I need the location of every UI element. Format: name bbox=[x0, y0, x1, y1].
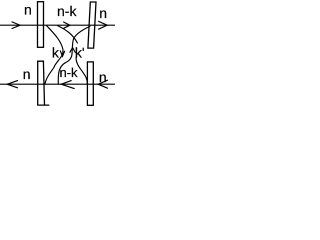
svg-text:n: n bbox=[24, 2, 32, 18]
phonon curve D, S-curve from top-right barrier down-left to bottom line bbox=[58, 26, 90, 84]
arrow bottom-right left-pointing bbox=[98, 80, 107, 88]
arrow top-right right-pointing bbox=[99, 21, 108, 29]
svg-text:n: n bbox=[99, 5, 107, 21]
svg-text:n-k: n-k bbox=[60, 65, 79, 80]
arrowhead up on phonon D bbox=[70, 48, 75, 53]
arrow top-middle right-pointing bbox=[64, 22, 70, 28]
svg-text:k: k bbox=[52, 44, 60, 60]
wire top electron line bbox=[0, 24, 115, 26]
phonon curve B upper part (from top line, crossing D) bbox=[58, 26, 78, 43]
arrowhead down on phonon A bbox=[60, 51, 64, 57]
barrier rectangle top-left bbox=[38, 2, 44, 48]
phonon curve A (k), bulging right from top line to bottom line bbox=[45, 26, 63, 85]
svg-text:n: n bbox=[23, 66, 31, 82]
phonon curve B lower part (emerging below k' label, to bottom-right barrier) bbox=[76, 58, 87, 85]
arrow bottom-left left-pointing bbox=[7, 81, 17, 88]
svg-text:k': k' bbox=[75, 45, 85, 61]
barrier rectangle top-right (slightly tilted parallelogram) bbox=[88, 2, 96, 48]
barrier rectangle bottom-right bbox=[87, 62, 93, 105]
arrow top-left right-pointing bbox=[12, 22, 20, 29]
svg-text:n: n bbox=[99, 69, 107, 85]
arrow bottom-middle left-pointing bbox=[61, 81, 74, 89]
svg-text:n-k: n-k bbox=[57, 3, 77, 19]
barrier rectangle bottom-left (with overshoot foot) bbox=[38, 61, 49, 105]
wire bottom electron line bbox=[0, 83, 115, 85]
